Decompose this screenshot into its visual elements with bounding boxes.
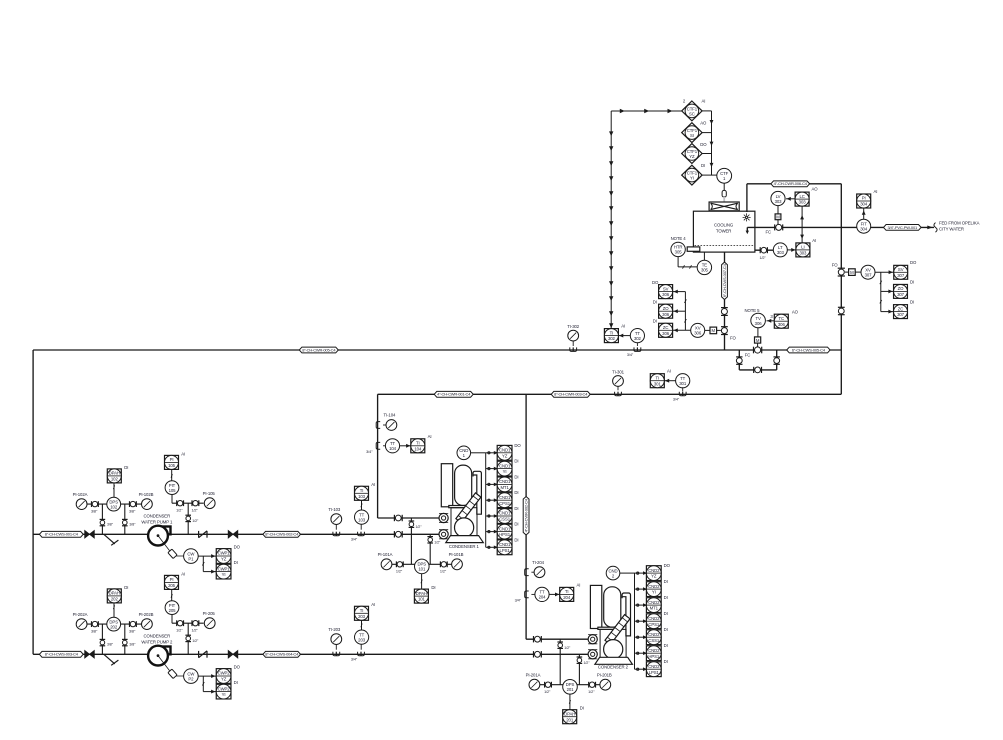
tower riser / distribution xyxy=(840,184,842,394)
instrument DPS-202 xyxy=(107,617,121,631)
instrument ZO-306 xyxy=(653,299,673,318)
svg-text:CND1: CND1 xyxy=(499,495,511,500)
svg-text:302: 302 xyxy=(608,336,616,341)
pressure/temperature gauge TI-204 xyxy=(532,560,545,578)
svg-text:DI: DI xyxy=(124,585,128,590)
svg-text:8"-CH-CWS-002-C4: 8"-CH-CWS-002-C4 xyxy=(265,532,299,537)
valve valve xyxy=(92,501,99,507)
valve level tap valve xyxy=(760,247,767,253)
suction standpipe xyxy=(32,350,34,654)
svg-text:3/4": 3/4" xyxy=(515,599,522,603)
valve tap valve xyxy=(185,635,191,641)
svg-text:DO: DO xyxy=(514,443,521,448)
DPS-202 manifold xyxy=(87,623,142,625)
return riser to condenser 1 xyxy=(377,394,379,518)
condenser water return pipe to tower xyxy=(747,183,841,185)
svg-text:AI: AI xyxy=(371,482,375,487)
instrument DPAH-201 xyxy=(563,706,584,724)
svg-text:CWP1: CWP1 xyxy=(218,566,231,571)
svg-text:3/8": 3/8" xyxy=(129,629,136,633)
svg-text:YI: YI xyxy=(503,469,507,474)
svg-text:PI: PI xyxy=(170,577,174,582)
svg-text:306: 306 xyxy=(778,322,786,327)
svg-text:LPS1: LPS1 xyxy=(649,670,660,675)
svg-text:301: 301 xyxy=(654,381,662,386)
instrument CND1-CPS1 xyxy=(497,490,518,507)
instrument TI-204 display xyxy=(560,582,581,601)
svg-text:CONDENSER: CONDENSER xyxy=(144,634,171,639)
svg-text:CITY WATER: CITY WATER xyxy=(939,227,964,232)
DPS-201 manifold xyxy=(540,684,600,686)
signal line from BAS to interlocks xyxy=(611,110,682,112)
valve valve xyxy=(177,500,184,506)
svg-text:HPS1: HPS1 xyxy=(499,532,511,537)
svg-text:PI-202A: PI-202A xyxy=(73,612,88,617)
svg-text:PI-201A: PI-201A xyxy=(526,672,541,677)
svg-text:LC: LC xyxy=(799,194,804,199)
instrument TE-305 xyxy=(697,260,711,274)
svg-text:3/8": 3/8" xyxy=(107,523,114,527)
signal LT-303 to LI-303 xyxy=(787,249,796,251)
svg-text:DI: DI xyxy=(514,490,518,495)
signal XV-306 wiring xyxy=(673,291,686,293)
svg-text:CPS1: CPS1 xyxy=(648,622,660,627)
svg-text:FC: FC xyxy=(766,229,772,234)
svg-text:TI-301: TI-301 xyxy=(612,369,625,374)
instrument PI-304 xyxy=(857,189,878,208)
svg-text:301: 301 xyxy=(679,381,687,386)
pipe label CWR-006 xyxy=(771,181,810,187)
pipe label PW-001 xyxy=(884,225,922,231)
svg-text:AI: AI xyxy=(181,451,185,456)
DPS-102 manifold xyxy=(87,503,142,505)
valve valve xyxy=(130,621,137,627)
instrument TT-203 xyxy=(355,630,369,644)
svg-text:CSS1: CSS1 xyxy=(648,638,660,643)
svg-text:105: 105 xyxy=(169,488,177,493)
instrument TT-301 xyxy=(676,374,690,388)
DPS-202 taps xyxy=(101,624,103,654)
valve tap valve xyxy=(557,642,563,648)
signal XV-307 wiring xyxy=(875,271,894,273)
svg-text:105: 105 xyxy=(168,463,176,468)
signal TT-203 to TI-203 xyxy=(361,620,363,630)
svg-text:104: 104 xyxy=(414,446,422,451)
pipe label CWR-001 xyxy=(434,391,473,397)
instrument DPAH-102 xyxy=(107,465,128,483)
instrument TT-204 xyxy=(535,587,549,601)
svg-text:TOWER: TOWER xyxy=(716,229,731,234)
pressure/temperature gauge TI-302 xyxy=(567,324,580,341)
svg-text:6"-CH-CWS-005-C4: 6"-CH-CWS-005-C4 xyxy=(792,347,826,352)
condenser water pump P-2 xyxy=(148,646,170,666)
svg-text:FO: FO xyxy=(730,336,737,341)
svg-text:DI: DI xyxy=(514,459,518,464)
pump motor CW-P2 xyxy=(158,656,184,679)
CND-2 wiring xyxy=(620,572,635,574)
svg-text:MT1: MT1 xyxy=(500,485,509,490)
svg-text:1/2": 1/2" xyxy=(440,570,447,574)
svg-text:3/4": 3/4" xyxy=(366,450,373,454)
svg-text:AI: AI xyxy=(621,324,625,329)
svg-text:3/4": 3/4" xyxy=(673,398,680,402)
svg-text:DI: DI xyxy=(234,680,238,685)
svg-text:CND2: CND2 xyxy=(648,616,660,621)
signal PIT-105 to PI-105 xyxy=(171,469,173,480)
svg-text:P1: P1 xyxy=(188,556,194,561)
svg-text:303: 303 xyxy=(799,200,807,205)
instrument CND-2 xyxy=(606,566,620,580)
svg-text:DI: DI xyxy=(664,627,668,632)
instrument LI-303 xyxy=(796,238,816,257)
svg-text:305: 305 xyxy=(701,268,709,273)
svg-text:304: 304 xyxy=(860,202,868,207)
svg-text:MT1: MT1 xyxy=(650,606,659,611)
instrument PIT-205 xyxy=(165,601,179,615)
svg-text:M: M xyxy=(850,270,854,275)
svg-text:6"-CH-CWS-007-C4: 6"-CH-CWS-007-C4 xyxy=(722,263,727,297)
svg-text:CWP2: CWP2 xyxy=(218,671,231,676)
valve PI-201B valve xyxy=(589,682,596,688)
instrument PI-205 display xyxy=(165,571,186,589)
condenser 1 outlet pipe xyxy=(33,533,439,535)
pressure/temperature gauge PI-101B xyxy=(449,552,464,570)
DP taps condenser 2 xyxy=(559,639,561,685)
svg-text:CND2: CND2 xyxy=(648,568,660,573)
instrument CWP2-YZ xyxy=(216,665,240,684)
interlock CTF1-SC xyxy=(682,101,702,121)
instrument TT-103 xyxy=(355,510,369,524)
svg-text:3/4": 3/4" xyxy=(627,353,634,357)
svg-text:SV: SV xyxy=(663,286,669,291)
svg-text:DI: DI xyxy=(910,300,914,305)
svg-text:4"-CH-CWR-006-C4: 4"-CH-CWR-006-C4 xyxy=(774,181,808,186)
svg-text:8"-CH-CWR-005-C4: 8"-CH-CWR-005-C4 xyxy=(302,347,336,352)
actuator M XV-306 actuator xyxy=(710,327,717,334)
interlock CTF1-YI xyxy=(682,165,702,185)
svg-text:YZ: YZ xyxy=(221,677,227,682)
signal LC-303 to LV-303 xyxy=(786,198,795,200)
svg-text:M: M xyxy=(756,338,760,343)
chiller CONDENSER 1 base xyxy=(446,536,484,543)
thermowell TT-204 well xyxy=(525,591,529,598)
PIT-205 manifold xyxy=(172,622,204,624)
signal CW-P2 wiring xyxy=(198,675,216,677)
signal DPS-202 to DPAH-202 xyxy=(113,603,115,617)
svg-text:TI: TI xyxy=(655,375,659,380)
city water makeup line xyxy=(747,226,934,228)
instrument LV-303 xyxy=(771,191,785,205)
svg-text:8"-CH-CWS-004-C4: 8"-CH-CWS-004-C4 xyxy=(265,652,299,657)
svg-text:AI: AI xyxy=(702,99,706,104)
instrument DPS-102 xyxy=(107,497,121,511)
svg-text:WATER PUMP 1: WATER PUMP 1 xyxy=(141,520,173,525)
svg-text:AI: AI xyxy=(667,369,671,374)
svg-text:CND1: CND1 xyxy=(499,463,511,468)
valve tap valve xyxy=(100,639,106,645)
svg-text:103: 103 xyxy=(358,494,366,499)
instrument HTR-305 xyxy=(671,242,685,256)
return riser to condenser 2 xyxy=(525,394,527,639)
condenser water supply header xyxy=(33,349,841,351)
svg-text:8"-CH-CWS-001-C4: 8"-CH-CWS-001-C4 xyxy=(45,532,79,537)
svg-text:3/8": 3/8" xyxy=(91,509,98,513)
thermowell TT-301 well xyxy=(679,392,686,396)
valve bypass valve C xyxy=(754,367,762,373)
svg-text:1/2": 1/2" xyxy=(759,256,766,260)
svg-text:WATER PUMP 2: WATER PUMP 2 xyxy=(141,640,173,645)
svg-text:CPS1: CPS1 xyxy=(499,501,511,506)
instrument TI-302 display xyxy=(604,324,625,343)
svg-text:307: 307 xyxy=(897,292,905,297)
signal TC-306 to TV-306 xyxy=(767,320,775,322)
svg-text:4"-CH-CWR-001-C4: 4"-CH-CWR-001-C4 xyxy=(437,392,471,397)
signal DPS-201 to DPAH-201 xyxy=(569,694,571,710)
gate valve discharge gate valve P-2 xyxy=(228,651,238,659)
instrument DPAH-202 xyxy=(107,585,128,603)
svg-text:104: 104 xyxy=(389,446,397,451)
signal TT-302 to TI-302 xyxy=(618,335,630,337)
signal TT-204 to TI-204 xyxy=(549,593,560,595)
instrument ZO-307 xyxy=(894,279,915,298)
svg-text:1/2": 1/2" xyxy=(416,525,423,529)
instrument CND2-LPS1 xyxy=(646,659,667,676)
svg-text:304: 304 xyxy=(860,227,868,232)
svg-text:AI: AI xyxy=(428,434,432,439)
svg-text:TI-104: TI-104 xyxy=(383,413,396,418)
svg-text:306: 306 xyxy=(755,321,763,326)
instrument CW-P1 xyxy=(184,549,199,564)
pipe label suction label P-1 xyxy=(39,531,83,537)
svg-text:DO: DO xyxy=(910,260,917,265)
pipe label suction label P-2 xyxy=(39,651,83,657)
signal TT-104 to TI-104 xyxy=(400,445,411,447)
valve condenser 2 inlet valve xyxy=(534,636,542,642)
svg-text:102: 102 xyxy=(110,504,118,509)
svg-text:3/8": 3/8" xyxy=(91,629,98,633)
svg-text:201: 201 xyxy=(567,687,575,692)
chiller CONDENSER 2 graphic xyxy=(590,585,630,661)
TV-306 bypass piping xyxy=(738,350,740,370)
line break symbol xyxy=(934,223,937,233)
pressure/temperature gauge PI-202B xyxy=(139,612,154,630)
svg-text:8"-CH-CWR-003-C4: 8"-CH-CWR-003-C4 xyxy=(554,392,588,397)
svg-text:DI: DI xyxy=(664,659,668,664)
instrument TI-203 display xyxy=(355,602,376,620)
instrument CTF-1 xyxy=(717,168,732,183)
thermowell TI-301 well xyxy=(615,392,622,396)
svg-text:CND2: CND2 xyxy=(648,664,660,669)
svg-text:1/2": 1/2" xyxy=(588,690,595,694)
svg-text:DI: DI xyxy=(514,474,518,479)
CND-1 wiring xyxy=(471,452,486,454)
svg-text:DI: DI xyxy=(664,611,668,616)
svg-text:TI: TI xyxy=(610,330,614,335)
svg-text:DI: DI xyxy=(514,537,518,542)
svg-text:3/4": 3/4" xyxy=(351,537,358,541)
pressure/temperature gauge PI-201A xyxy=(526,672,541,690)
valve bypass valve A xyxy=(736,357,742,364)
svg-text:M: M xyxy=(712,328,716,333)
svg-text:PI-202B: PI-202B xyxy=(139,612,154,617)
svg-text:CND2: CND2 xyxy=(648,632,660,637)
svg-text:DPAH: DPAH xyxy=(109,591,120,596)
svg-text:TI-103: TI-103 xyxy=(328,507,341,512)
svg-text:DI: DI xyxy=(124,465,128,470)
svg-text:CND1: CND1 xyxy=(499,448,511,453)
svg-text:302: 302 xyxy=(634,336,642,341)
instrument CWP2-YI xyxy=(216,680,237,699)
svg-text:PI-201B: PI-201B xyxy=(597,672,612,677)
pipe label discharge label P-1 xyxy=(263,531,301,537)
svg-text:CND2: CND2 xyxy=(648,600,660,605)
instrument ZC-307 xyxy=(894,300,915,319)
svg-text:M: M xyxy=(776,215,780,220)
instrument LC-303 xyxy=(795,187,818,207)
svg-text:1/2": 1/2" xyxy=(191,629,198,633)
svg-text:AI: AI xyxy=(181,571,185,576)
svg-text:3/8": 3/8" xyxy=(129,523,136,527)
svg-text:DPAH: DPAH xyxy=(416,591,427,596)
svg-text:YI: YI xyxy=(652,590,656,595)
svg-text:3/8": 3/8" xyxy=(107,643,114,647)
svg-text:205: 205 xyxy=(169,608,177,613)
svg-text:DO: DO xyxy=(234,665,241,670)
instrument DPAH-101 xyxy=(414,585,435,603)
svg-text:DI: DI xyxy=(580,706,584,711)
thermowell TI-103 well xyxy=(333,532,340,536)
valve check valve on riser xyxy=(838,307,845,314)
svg-text:SV: SV xyxy=(898,267,904,272)
svg-text:203: 203 xyxy=(358,614,366,619)
valve valve xyxy=(130,501,137,507)
svg-text:2: 2 xyxy=(683,99,686,104)
spray nozzle xyxy=(743,213,751,221)
pressure/temperature gauge TI-301 xyxy=(612,369,625,386)
svg-text:8"-CH-CWS-003-C4: 8"-CH-CWS-003-C4 xyxy=(45,652,79,657)
svg-text:306: 306 xyxy=(662,292,670,297)
svg-text:DI: DI xyxy=(664,579,668,584)
pipe label CWR-003 xyxy=(551,391,590,397)
instrument PIT-105 xyxy=(165,481,179,495)
svg-text:CONDENSER 1: CONDENSER 1 xyxy=(449,544,480,549)
svg-text:DPAH: DPAH xyxy=(109,471,120,476)
valve tap valve xyxy=(409,521,415,527)
signal TT-103 to TI-103 xyxy=(361,500,363,510)
thermowell TT-203 well xyxy=(358,652,365,656)
svg-text:3/4": 3/4" xyxy=(351,657,358,661)
PIT-105 manifold xyxy=(172,502,204,504)
svg-text:103: 103 xyxy=(358,517,366,522)
svg-text:DI: DI xyxy=(431,585,435,590)
instrument CND1-HPS1 xyxy=(497,522,518,539)
svg-text:LPS1: LPS1 xyxy=(500,548,511,553)
svg-text:1/2": 1/2" xyxy=(176,509,183,513)
valve valve xyxy=(92,621,99,627)
signal LC-303 to LI-303 xyxy=(801,206,803,243)
svg-text:101: 101 xyxy=(418,597,426,602)
svg-text:DI: DI xyxy=(910,279,914,284)
TE-305 stem xyxy=(703,252,705,260)
instrument CWP1-YI xyxy=(216,560,237,579)
svg-text:1/2": 1/2" xyxy=(544,690,551,694)
svg-text:PI-101A: PI-101A xyxy=(378,552,393,557)
svg-text:DI: DI xyxy=(514,522,518,527)
basin level line xyxy=(755,249,773,251)
svg-text:YZ: YZ xyxy=(502,453,508,458)
signal HTR-305 to TE-305 xyxy=(677,257,679,267)
svg-text:307: 307 xyxy=(865,273,873,278)
valve TV-306 valve xyxy=(754,347,762,354)
check valve pump P-2 check valve xyxy=(199,651,207,658)
gate valve suction gate valve P-2 xyxy=(85,651,95,659)
svg-text:P2: P2 xyxy=(188,676,194,681)
valve condenser 2 outlet valve xyxy=(534,651,542,657)
valve tower outlet valve xyxy=(721,308,728,316)
pressure/temperature gauge PI-102A xyxy=(73,492,88,510)
svg-text:PI-102B: PI-102B xyxy=(139,492,154,497)
check valve pump P-1 check valve xyxy=(199,531,207,538)
instrument CWP1-YZ xyxy=(216,545,240,564)
instrument ZC-306 xyxy=(653,319,673,338)
instrument TI-103 display xyxy=(355,482,376,500)
pressure/temperature gauge TI-103 xyxy=(328,507,341,525)
svg-text:HPS1: HPS1 xyxy=(648,654,660,659)
pressure/temperature gauge PI-102B xyxy=(139,492,154,510)
svg-text:PI-205: PI-205 xyxy=(203,611,216,616)
svg-text:AO: AO xyxy=(812,187,819,192)
pipe label CWS-007 xyxy=(722,262,728,299)
pressure/temperature gauge PI-105 xyxy=(203,491,216,509)
pipe label CWS-header-label xyxy=(299,347,338,353)
valve makeup isolation valve XV-307 xyxy=(838,268,845,276)
valve tap valve xyxy=(577,657,583,663)
instrument CND2-HPS1 xyxy=(646,643,667,660)
svg-text:DI: DI xyxy=(514,506,518,511)
instrument TT-104 xyxy=(385,439,399,453)
pressure/temperature gauge PI-101A xyxy=(378,552,393,570)
condenser water return header xyxy=(378,393,842,395)
instrument DPS-201 xyxy=(563,680,578,695)
svg-text:204: 204 xyxy=(563,595,571,600)
svg-text:TI: TI xyxy=(565,589,569,594)
svg-text:AI: AI xyxy=(812,238,816,243)
svg-text:102: 102 xyxy=(111,477,119,482)
interlock CTF1-SI xyxy=(682,123,702,143)
svg-text:FED FROM OPELIKA: FED FROM OPELIKA xyxy=(939,221,980,226)
svg-text:1/2": 1/2" xyxy=(192,519,199,523)
svg-text:SI: SI xyxy=(690,133,694,138)
svg-text:306: 306 xyxy=(662,331,670,336)
svg-text:TI: TI xyxy=(416,441,420,446)
valve PI-201A valve xyxy=(545,682,552,688)
svg-text:CND2: CND2 xyxy=(648,648,660,653)
actuator M XV-307 actuator xyxy=(849,269,856,276)
svg-text:YZ: YZ xyxy=(651,574,657,579)
svg-text:3: 3 xyxy=(770,314,773,319)
strainer P-2 xyxy=(104,654,119,665)
pressure/temperature gauge PI-205 xyxy=(203,611,216,629)
instrument SV-307 xyxy=(894,260,917,279)
instrument TI-301 display xyxy=(650,369,671,388)
interlock CTF1-YZ xyxy=(682,144,702,164)
valve PI-101A valve xyxy=(396,561,403,567)
DP taps condenser 1 xyxy=(410,518,412,564)
svg-text:DI: DI xyxy=(664,643,668,648)
svg-text:203: 203 xyxy=(358,637,366,642)
valve bypass valve B xyxy=(774,357,780,364)
svg-text:PI-102A: PI-102A xyxy=(73,492,88,497)
